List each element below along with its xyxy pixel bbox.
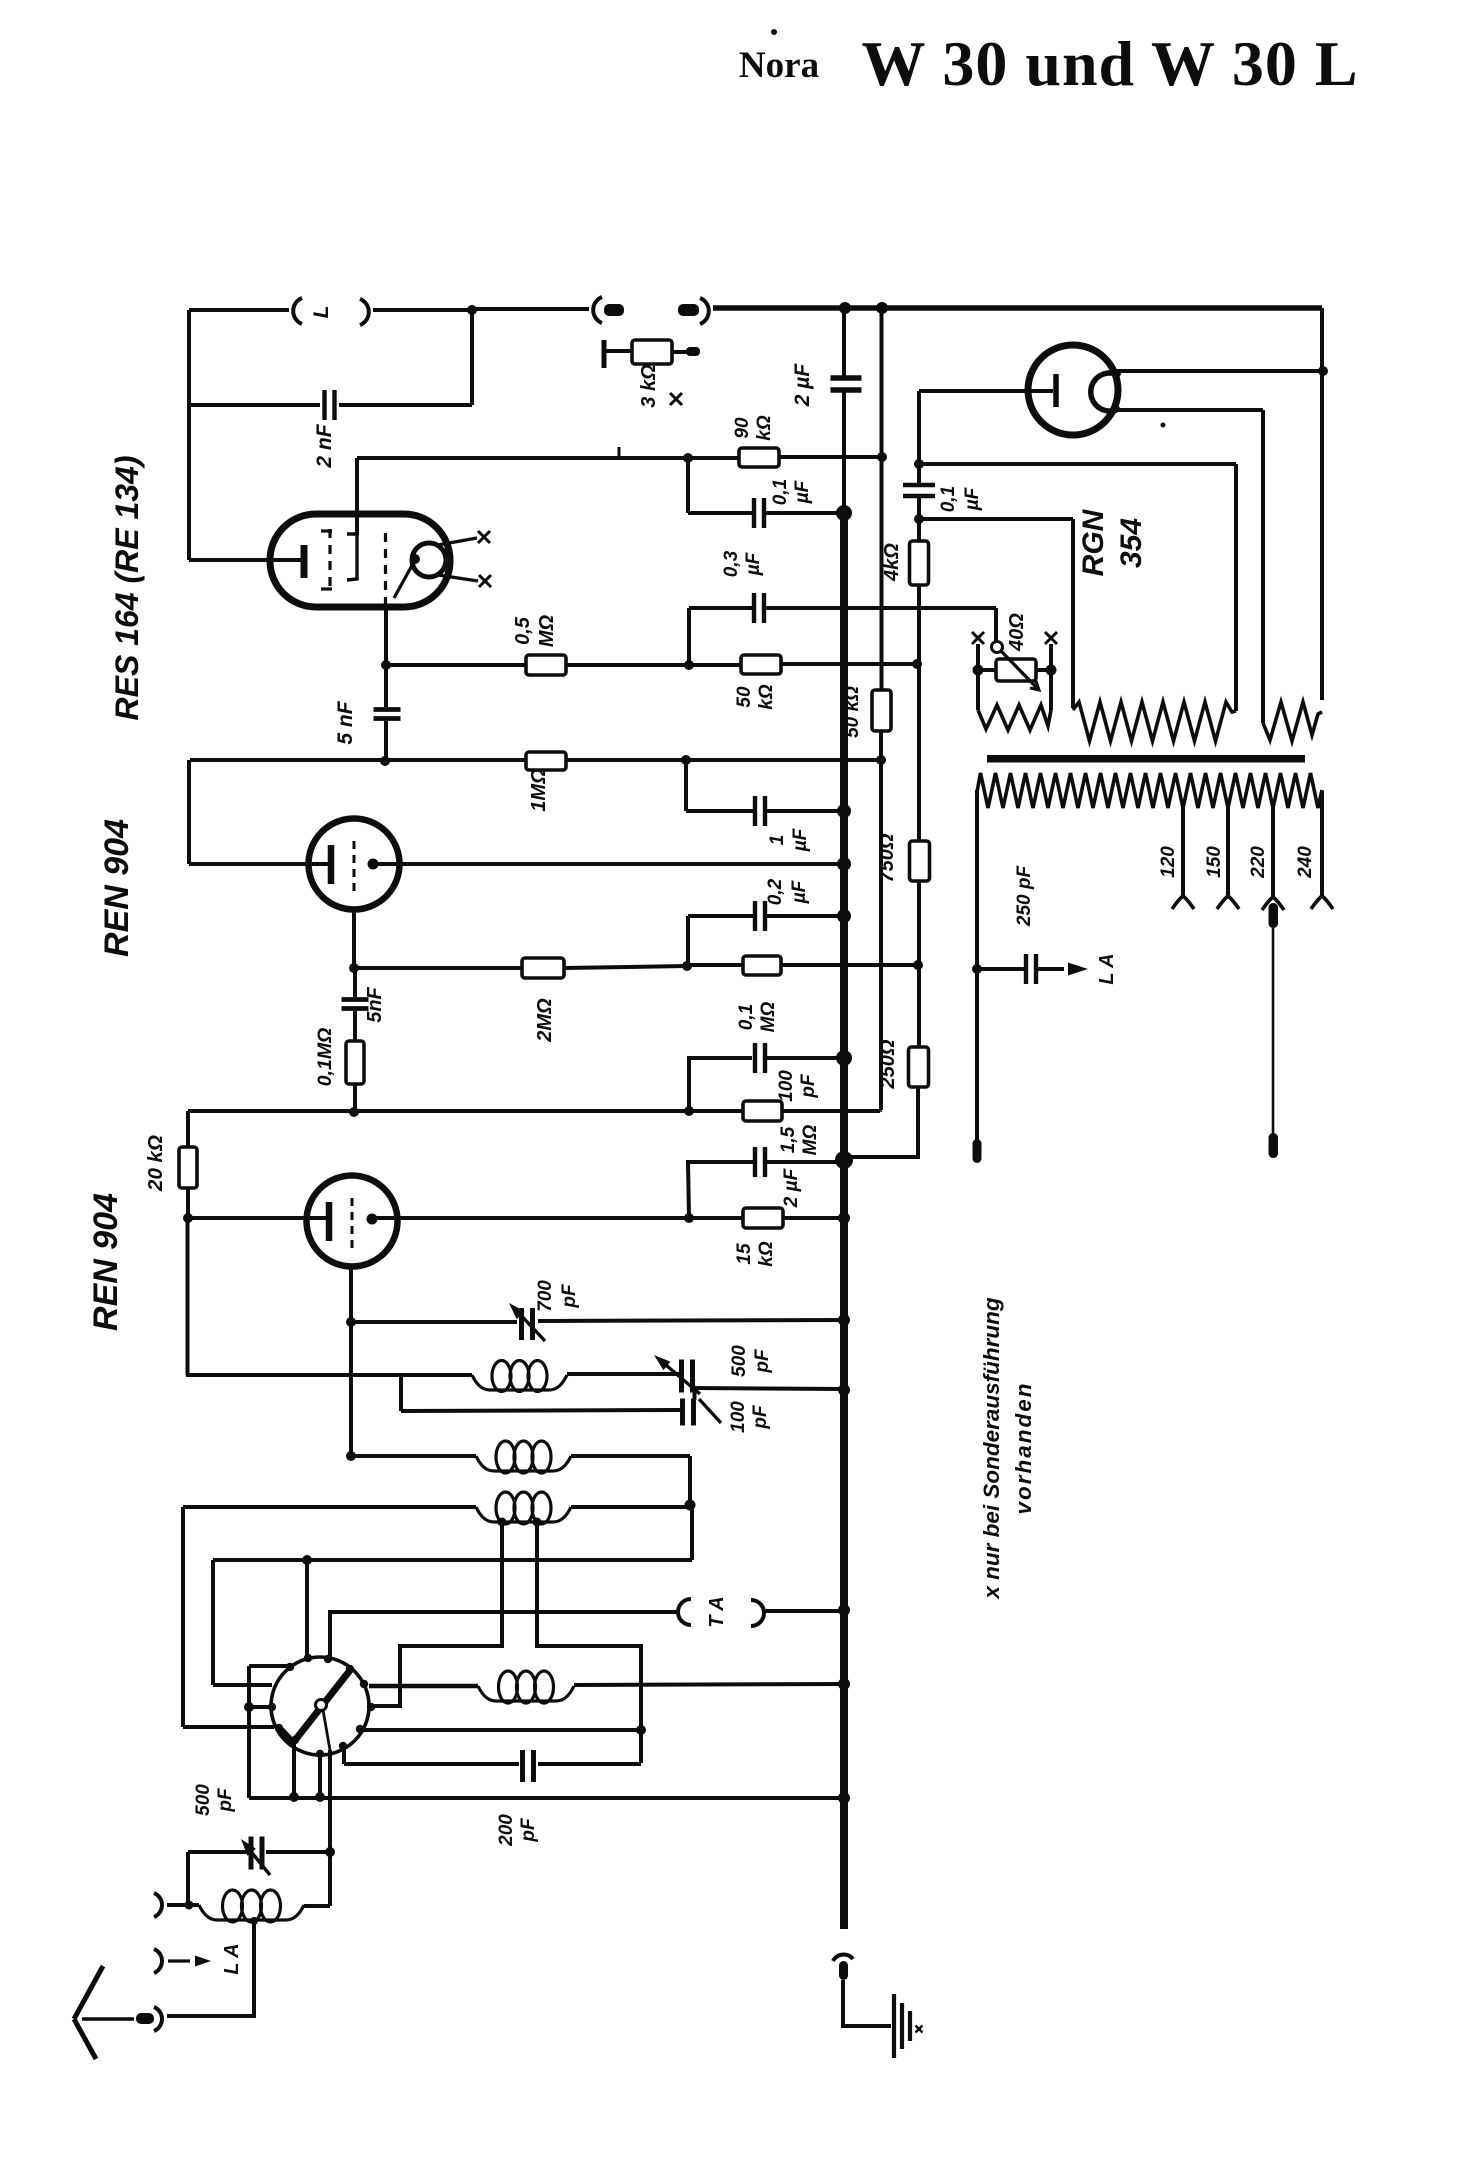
- rheostat 40 Ohm body: [996, 659, 1036, 681]
- ground bar 1: [892, 1994, 896, 2058]
- REN904 low grid dashed: [351, 1198, 354, 1248]
- svg-text:5 nF: 5 nF: [334, 700, 357, 744]
- wire 2nF row left: [187, 403, 320, 407]
- mains switch left arc: [593, 297, 602, 323]
- wire tube1 bottom vertical: [349, 1267, 353, 1456]
- svg-text:L A: L A: [221, 1943, 243, 1974]
- socket tap 150: [1217, 896, 1239, 909]
- wire row1456 right: [571, 1454, 690, 1458]
- node bus cathode mid: [837, 857, 851, 871]
- wire coil3 right drop: [537, 1522, 641, 1763]
- wire 700pF row left: [351, 1320, 517, 1324]
- connector TA right arc: [751, 1600, 764, 1626]
- node grid row tube1: [183, 1213, 193, 1223]
- wire 0.5M to 50k: [566, 663, 741, 667]
- resistor 1M: [526, 752, 566, 770]
- wire coil ant stub right: [304, 1904, 330, 1908]
- wire vertical A: [247, 1666, 251, 1798]
- wire RES164 to 0.5M row: [384, 607, 388, 665]
- socket antenna 2: [154, 1949, 162, 1973]
- wire 700pF row right: [538, 1320, 844, 1321]
- wire 213 down: [211, 1560, 215, 1685]
- node 700pF row: [346, 1317, 356, 1327]
- wire row1375 left: [186, 1373, 472, 1377]
- node 15k row left: [684, 1213, 694, 1223]
- antenna symbol lower: [74, 2019, 96, 2059]
- x mark rheostat right: [1045, 632, 1057, 644]
- node bus 2uF-250: [835, 1151, 853, 1169]
- svg-text:0,3: 0,3: [721, 550, 742, 577]
- wire RES164 anode lead: [355, 458, 359, 535]
- wire 750 to 250: [917, 881, 921, 1047]
- capacitor 250pF: [1024, 954, 1028, 984]
- capacitor 2uF top: [831, 375, 862, 381]
- wire RGN top-right: [1112, 369, 1323, 373]
- node right rail junction: [1318, 366, 1328, 376]
- wire left frame vertical upper: [187, 310, 191, 405]
- plug antenna: [136, 2013, 154, 2024]
- RES164 anode plate: [347, 534, 357, 580]
- resistor 750: [910, 841, 930, 881]
- node top right-branch junction: [876, 302, 888, 314]
- node coil tap: [250, 1917, 258, 1925]
- wire tap 120: [1181, 808, 1185, 895]
- wire rheostat right stub: [1049, 644, 1053, 670]
- wire top-left to L connector: [189, 308, 289, 312]
- node coil3 term left: [498, 1518, 507, 1527]
- wire row1375 right: [567, 1372, 680, 1376]
- wire antenna lead: [82, 2017, 134, 2021]
- wire REN904 mid bottom: [352, 910, 356, 968]
- wire row760 right: [566, 758, 881, 762]
- tube REN904 low envelope: [307, 1176, 398, 1267]
- detector cathode line: [323, 1710, 330, 1750]
- detector center circle: [316, 1700, 327, 1711]
- wire row760 left: [190, 758, 526, 762]
- capacitor 0.1uF anode: [903, 483, 935, 488]
- resistor 2M: [522, 958, 564, 978]
- wire 250 bottom corner: [846, 1087, 918, 1157]
- tube REN904 mid envelope: [309, 819, 400, 910]
- wire rheostat left down: [976, 670, 980, 710]
- capacitor 100pF: [753, 1043, 757, 1073]
- bus main vertical: [840, 510, 848, 1929]
- wire 5nF to row760: [384, 721, 388, 760]
- capacitor 700pF variable: [519, 1308, 524, 1340]
- wire 0.1M row b: [781, 963, 918, 967]
- wire 1uF row right: [767, 809, 844, 813]
- socket antenna 1: [154, 1893, 162, 1917]
- wire node to mains switch: [472, 307, 589, 311]
- node bus row1798: [838, 1792, 850, 1804]
- node row760 left corner: [681, 755, 691, 765]
- svg-text:500: 500: [193, 1784, 214, 1816]
- resistor 4k: [910, 541, 929, 585]
- arrow 500pF: [660, 1360, 700, 1394]
- wire left vertical 1507-1727: [181, 1507, 185, 1727]
- svg-text:0,1: 0,1: [938, 486, 959, 512]
- arrow L A right: [1068, 963, 1088, 976]
- svg-text:x nur bei Sonderausführung: x nur bei Sonderausführung: [979, 1297, 1004, 1600]
- RES164 cathode circle: [412, 543, 446, 577]
- svg-text:220: 220: [1248, 846, 1269, 879]
- detector pin dots: [304, 1654, 312, 1662]
- node 90k row left: [683, 453, 693, 463]
- wire 0.2uF corner down: [686, 916, 690, 966]
- RES164 screen tick top: [321, 529, 332, 532]
- RGN354 cathode bar: [1053, 374, 1059, 407]
- connector L left arc: [293, 298, 302, 324]
- wire 4k chain top: [917, 391, 921, 484]
- wire 0.1M to row1111: [353, 1084, 357, 1112]
- node top bus junction: [839, 302, 851, 314]
- wire coil3 left drop: [370, 1522, 502, 1706]
- svg-text:1,5: 1,5: [778, 1126, 799, 1153]
- wire bus below 2uF: [842, 390, 846, 512]
- resistor 15k: [743, 1208, 783, 1228]
- node 250pF junction: [972, 964, 982, 974]
- resistor 50k vertical: [872, 690, 891, 731]
- transformer core bar: [987, 755, 1305, 763]
- capacitor 0.3uF: [752, 593, 756, 623]
- svg-text:MΩ: MΩ: [758, 1002, 779, 1033]
- node REN904 low cathode: [367, 1214, 378, 1225]
- svg-text:1: 1: [767, 835, 788, 846]
- arrow 500pF antenna: [248, 1848, 270, 1875]
- wire 692 down: [690, 1505, 694, 1560]
- wire ground lead: [843, 1980, 891, 2026]
- RGN354 filament loop: [1091, 373, 1120, 411]
- resistor 50k horizontal: [741, 655, 781, 674]
- wire 3k left contact bar: [602, 340, 607, 368]
- node bus 1uF: [837, 804, 851, 818]
- node RES164 cathode: [410, 554, 420, 564]
- svg-text:120: 120: [1158, 846, 1179, 878]
- node REN904 mid cathode: [368, 859, 379, 870]
- x mark ground: [916, 2026, 923, 2033]
- svg-text:L: L: [310, 306, 333, 319]
- svg-text:3 kΩ: 3 kΩ: [638, 364, 660, 408]
- svg-text:REN 904: REN 904: [87, 1193, 125, 1331]
- wire coil4 right lead: [574, 1684, 844, 1685]
- wire branch vertical 881 lower: [879, 731, 883, 1110]
- wire row1798 long: [249, 1796, 844, 1800]
- wire row1111 right: [782, 1109, 880, 1113]
- svg-text:90: 90: [732, 417, 753, 439]
- wire 5nF2 to 0.1M: [353, 1011, 357, 1041]
- svg-text:100: 100: [728, 1401, 749, 1433]
- ground bar 3: [908, 2011, 912, 2041]
- svg-text:4kΩ: 4kΩ: [881, 543, 903, 582]
- wire 200pF stub up: [342, 1747, 346, 1764]
- svg-text:pF: pF: [752, 1348, 773, 1374]
- wire coil4 left lead: [369, 1684, 478, 1689]
- node 50k row right: [912, 659, 922, 669]
- wire 500pF ant row left: [188, 1850, 248, 1854]
- resistor 1.5M: [743, 1101, 782, 1121]
- capacitor 200pF: [520, 1750, 525, 1782]
- capacitor 0.1uF: [752, 498, 756, 528]
- wire grid lead REN904 low: [188, 1216, 330, 1220]
- svg-text:0,1MΩ: 0,1MΩ: [314, 1028, 336, 1087]
- wire 0.5M node to 5nF: [384, 665, 388, 707]
- svg-text:2 µF: 2 µF: [781, 1167, 802, 1208]
- wire left vertical 1218-1375: [186, 1218, 190, 1375]
- socket tap 220: [1262, 897, 1284, 910]
- wire 500pF ant row right: [266, 1850, 330, 1854]
- node row1560 junction: [302, 1555, 312, 1565]
- capacitor 5nF grid: [342, 997, 369, 1002]
- node coil3 term right: [533, 1518, 542, 1527]
- wire node down to 2nF row: [470, 310, 474, 405]
- wire grid lead RES164: [189, 558, 302, 562]
- socket tap 120: [1172, 896, 1194, 909]
- RES164 grid bar: [301, 545, 308, 578]
- wire row1560: [213, 1558, 692, 1562]
- wire 4k bottom to 50k row: [917, 585, 921, 841]
- svg-text:2MΩ: 2MΩ: [534, 998, 556, 1043]
- svg-text:1MΩ: 1MΩ: [528, 768, 550, 812]
- wire vertical 401: [399, 1375, 403, 1411]
- wire 690 down: [688, 1456, 692, 1505]
- wire 0.2uF row left: [688, 914, 753, 918]
- connector TA left arc: [678, 1599, 691, 1625]
- rheostat diagonal: [1001, 651, 1037, 688]
- svg-text:pF: pF: [798, 1073, 819, 1099]
- svg-text:MΩ: MΩ: [536, 614, 558, 647]
- wire row1111: [188, 1109, 743, 1113]
- wire 2uF bot right: [767, 1160, 844, 1164]
- wire 2nF row right: [339, 403, 472, 407]
- wire 2M row a: [354, 966, 522, 970]
- svg-text:vorhanden: vorhanden: [1011, 1381, 1036, 1514]
- svg-text:500: 500: [729, 1345, 750, 1377]
- resistor 0.1M vertical: [346, 1041, 364, 1084]
- svg-text:0,5: 0,5: [512, 616, 534, 645]
- wire tick on 90k row: [618, 447, 621, 458]
- node bus 100pF: [836, 1050, 852, 1066]
- winding right small: [1263, 702, 1322, 741]
- node row1456: [346, 1451, 356, 1461]
- node 0.5M row: [381, 660, 391, 670]
- detector filament bar: [296, 1669, 351, 1739]
- resistor 0.1M horizontal: [743, 956, 781, 975]
- socket antenna 3: [154, 2007, 162, 2031]
- wire 250pF left: [977, 967, 1024, 971]
- svg-text:250Ω: 250Ω: [877, 1039, 899, 1089]
- wire 188 down to coil: [186, 1852, 190, 1904]
- svg-text:250 pF: 250 pF: [1014, 865, 1035, 928]
- winding primary heater: [1073, 702, 1236, 741]
- wire 90k row: [357, 456, 739, 460]
- wire frame1 right: [1234, 464, 1238, 711]
- coil detector output: [478, 1686, 574, 1701]
- node row1798 b: [315, 1792, 325, 1802]
- wire 307 down to tube: [305, 1560, 309, 1657]
- wire TA corner: [330, 1612, 679, 1658]
- wire 100pF right: [766, 1056, 844, 1060]
- wire row1456 left: [351, 1454, 476, 1458]
- node row1111 tube: [349, 1107, 359, 1117]
- wire 200pF row left: [344, 1762, 519, 1766]
- wire bus upper thin: [842, 309, 846, 376]
- svg-text:pF: pF: [215, 1787, 236, 1813]
- REN904 mid grid dashed: [353, 841, 356, 891]
- svg-text:µF: µF: [792, 479, 813, 504]
- tube RGN354 envelope: [1028, 345, 1118, 435]
- svg-text:kΩ: kΩ: [756, 1241, 777, 1267]
- socket tap 240: [1311, 896, 1333, 909]
- svg-text:20 kΩ: 20 kΩ: [144, 1135, 167, 1192]
- wire TA to bus: [764, 1609, 844, 1613]
- wire vertA mid stub: [249, 1705, 273, 1709]
- wire 1uF corner down: [684, 760, 688, 811]
- wire 213 to tube: [213, 1683, 272, 1687]
- wire 100pF right up: [693, 1389, 697, 1400]
- svg-text:750Ω: 750Ω: [876, 833, 898, 882]
- wire 500pF right to bus: [694, 1388, 844, 1389]
- node bus coil4: [838, 1678, 850, 1690]
- wire row1730: [361, 1728, 641, 1732]
- speck: [771, 29, 777, 35]
- rheostat arrow tip: [1030, 681, 1039, 690]
- coil antenna: [199, 1905, 304, 1920]
- svg-text:2 nF: 2 nF: [313, 423, 336, 468]
- node chain row965: [913, 960, 923, 970]
- wire 0.3uF row left: [689, 606, 752, 610]
- wire rheostat right lead: [1036, 668, 1051, 672]
- svg-text:200: 200: [496, 1814, 517, 1847]
- mains switch right arc: [700, 298, 709, 324]
- wire 1uF row left: [686, 809, 753, 813]
- node top-left junction: [467, 305, 477, 315]
- svg-text:RGN: RGN: [1077, 508, 1110, 576]
- wire 881 corner join: [880, 1110, 881, 1111]
- svg-text:15: 15: [734, 1243, 755, 1265]
- wire 20k bottom: [186, 1188, 190, 1218]
- node 641 junction: [636, 1725, 646, 1735]
- svg-text:MΩ: MΩ: [800, 1125, 821, 1156]
- wire L connector to node: [373, 308, 472, 312]
- svg-text:Nora: Nora: [739, 45, 819, 86]
- wire RES164 heater lead bottom: [438, 575, 478, 581]
- mains switch plug left: [604, 304, 624, 316]
- node rheostat right: [1046, 665, 1057, 676]
- svg-text:240: 240: [1295, 846, 1316, 879]
- capacitor 500pF variable: [679, 1360, 684, 1393]
- antenna symbol upper: [74, 1966, 103, 2019]
- node 50k row left: [684, 660, 694, 670]
- resistor 3k: [632, 340, 672, 364]
- wire 2M row b: [564, 966, 687, 968]
- wire left vertical 760-864: [187, 760, 191, 864]
- wire 90k row right: [779, 455, 882, 459]
- wire socket1 to coil: [167, 1903, 199, 1907]
- node 90k row right: [877, 452, 887, 462]
- wire RGN bottom-right: [1117, 408, 1263, 412]
- svg-text:5nF: 5nF: [364, 986, 386, 1022]
- wire 50k row right: [781, 662, 917, 666]
- wire frame2 top: [919, 517, 1073, 521]
- svg-text:354: 354: [1115, 518, 1148, 568]
- wire 200pF row right: [538, 1762, 641, 1766]
- plug bus bottom: [839, 1961, 848, 1980]
- wire 3k right lead: [672, 350, 688, 354]
- svg-text:REN 904: REN 904: [98, 819, 136, 957]
- wire RGN left lead: [919, 389, 1053, 393]
- coil antenna secondary: [472, 1375, 567, 1390]
- node rheostat left: [973, 665, 984, 676]
- capacitor 500pF antenna: [249, 1837, 254, 1870]
- RES164 screen tick bottom: [321, 587, 332, 590]
- svg-text:W 30 und W 30 L: W 30 und W 30 L: [862, 28, 1359, 99]
- svg-text:0,1: 0,1: [736, 1004, 757, 1030]
- wire vertA top stub: [249, 1664, 292, 1668]
- svg-text:0,2: 0,2: [765, 878, 786, 905]
- wire 0.1uF row right: [766, 511, 844, 515]
- node bus 500pF: [838, 1384, 850, 1396]
- wire 0.5M row left: [386, 663, 526, 667]
- RES164 filament diagonal: [394, 560, 415, 598]
- svg-text:µF: µF: [790, 827, 811, 852]
- wire 330 down: [328, 1750, 332, 1906]
- tube detector envelope: [271, 1657, 369, 1755]
- svg-text:0,1: 0,1: [770, 479, 791, 505]
- wire 250pF right: [1038, 967, 1064, 971]
- arrow socket2: [168, 1959, 190, 1962]
- wire 100pF corner: [689, 1058, 752, 1111]
- mains pin right: [1269, 1133, 1279, 1158]
- wire REN904 mid cathode row: [373, 862, 844, 866]
- wire 0.2uF row right: [767, 914, 844, 918]
- node bus 700pF: [838, 1314, 850, 1326]
- node coil ant left: [185, 1901, 194, 1910]
- wire coil tap down: [167, 1921, 254, 2016]
- node bus TA: [838, 1604, 850, 1616]
- resistor 90k: [739, 448, 779, 467]
- node 2M row left: [349, 963, 359, 973]
- wire 0.3uF row right to rheostat feed: [766, 606, 996, 610]
- x mark 3k: [670, 393, 682, 405]
- node 0.1M row left: [682, 961, 692, 971]
- resistor 250: [909, 1047, 929, 1087]
- wire 0.1M row a: [687, 963, 743, 967]
- capacitor 0.2uF: [753, 901, 757, 931]
- wire 4k chain mid: [917, 497, 921, 541]
- plug 3k right end: [686, 347, 700, 356]
- node bus 0.1uF: [836, 505, 852, 521]
- svg-text:L A: L A: [1096, 953, 1118, 984]
- capacitor 5nF output: [374, 707, 401, 712]
- wire tap 220: [1271, 808, 1275, 896]
- rheostat wiper circle: [992, 642, 1003, 653]
- svg-text:T A: T A: [706, 1596, 728, 1627]
- wire rheostat feed down: [994, 608, 998, 644]
- node 4k chain frame1: [914, 459, 924, 469]
- REN904 mid grid bar: [328, 845, 335, 884]
- wire rheostat left stub: [976, 644, 980, 670]
- svg-text:µF: µF: [789, 879, 810, 904]
- wire grid lead REN904 mid: [189, 862, 332, 866]
- resistor 0.5M: [526, 655, 566, 675]
- wire 2uF bot corner: [688, 1162, 753, 1218]
- svg-text:kΩ: kΩ: [754, 415, 775, 441]
- node bus 15k: [838, 1212, 850, 1224]
- wire frame2 right: [1071, 519, 1075, 708]
- wire 20k top: [186, 1111, 190, 1147]
- RES164 grid dashed: [384, 533, 387, 606]
- node 500pF ant row: [325, 1847, 335, 1857]
